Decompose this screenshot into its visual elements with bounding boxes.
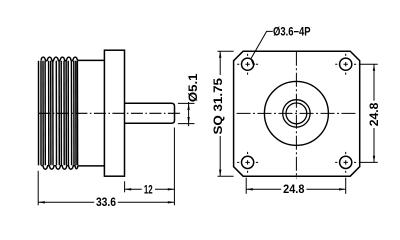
dim 33.6 extension line — [37, 171, 39, 206]
thread flank lines — [39, 61, 78, 166]
dim 33.6 line — [38, 201, 94, 203]
right 24.8 arrows — [373, 64, 375, 71]
pin — [125, 103, 175, 123]
bottom 24.8 arrows — [246, 188, 253, 190]
body bottom line — [78, 165, 105, 167]
SQ 31.75 extension lines — [218, 50, 234, 52]
horizontal centerline — [237, 112, 358, 114]
square flange with chamfered corners — [234, 51, 360, 176]
svg-text:Ø3.6−4P: Ø3.6−4P — [273, 27, 311, 39]
bolt holes — [242, 58, 352, 168]
arrows right view — [219, 51, 375, 190]
svg-text:SQ 31.75: SQ 31.75 — [213, 77, 225, 134]
SQ 31.75 dim line — [219, 51, 221, 75]
svg-text:24.8: 24.8 — [283, 184, 305, 196]
dim 12 extension lines — [124, 181, 126, 192]
centerline left view — [38, 112, 181, 114]
leader line for holes — [251, 31, 273, 59]
thread bottom crest profile — [41, 166, 77, 170]
SQ arrows — [219, 51, 221, 58]
leader arrow — [251, 59, 256, 65]
bottom 24.8 dim line — [246, 188, 281, 190]
Ø5.1 arrows — [187, 103, 189, 110]
right 24.8 extension lines — [359, 63, 378, 65]
ring inner — [286, 103, 307, 124]
dim 12 line — [125, 188, 142, 190]
hole crosshairs — [237, 54, 356, 173]
vertical centerline — [295, 52, 297, 179]
bottom 24.8 extension lines — [245, 178, 247, 194]
svg-text:33.6: 33.6 — [96, 197, 116, 209]
right 24.8 dim line — [373, 64, 375, 101]
12 arrows — [125, 188, 132, 190]
33.6 arrows — [38, 201, 45, 203]
svg-text:Ø5.1: Ø5.1 — [188, 73, 200, 102]
thread top crest profile — [41, 57, 78, 61]
dim Ø5.1 line — [188, 102, 190, 126]
flange (side view) — [104, 50, 124, 176]
svg-text:24.8: 24.8 — [369, 102, 381, 126]
svg-text:12: 12 — [144, 185, 153, 197]
dim Ø5.1 extension lines — [178, 102, 195, 104]
ring outer — [283, 100, 310, 127]
arrows left view — [38, 103, 190, 203]
body top line — [78, 59, 105, 61]
big circle — [264, 81, 328, 145]
